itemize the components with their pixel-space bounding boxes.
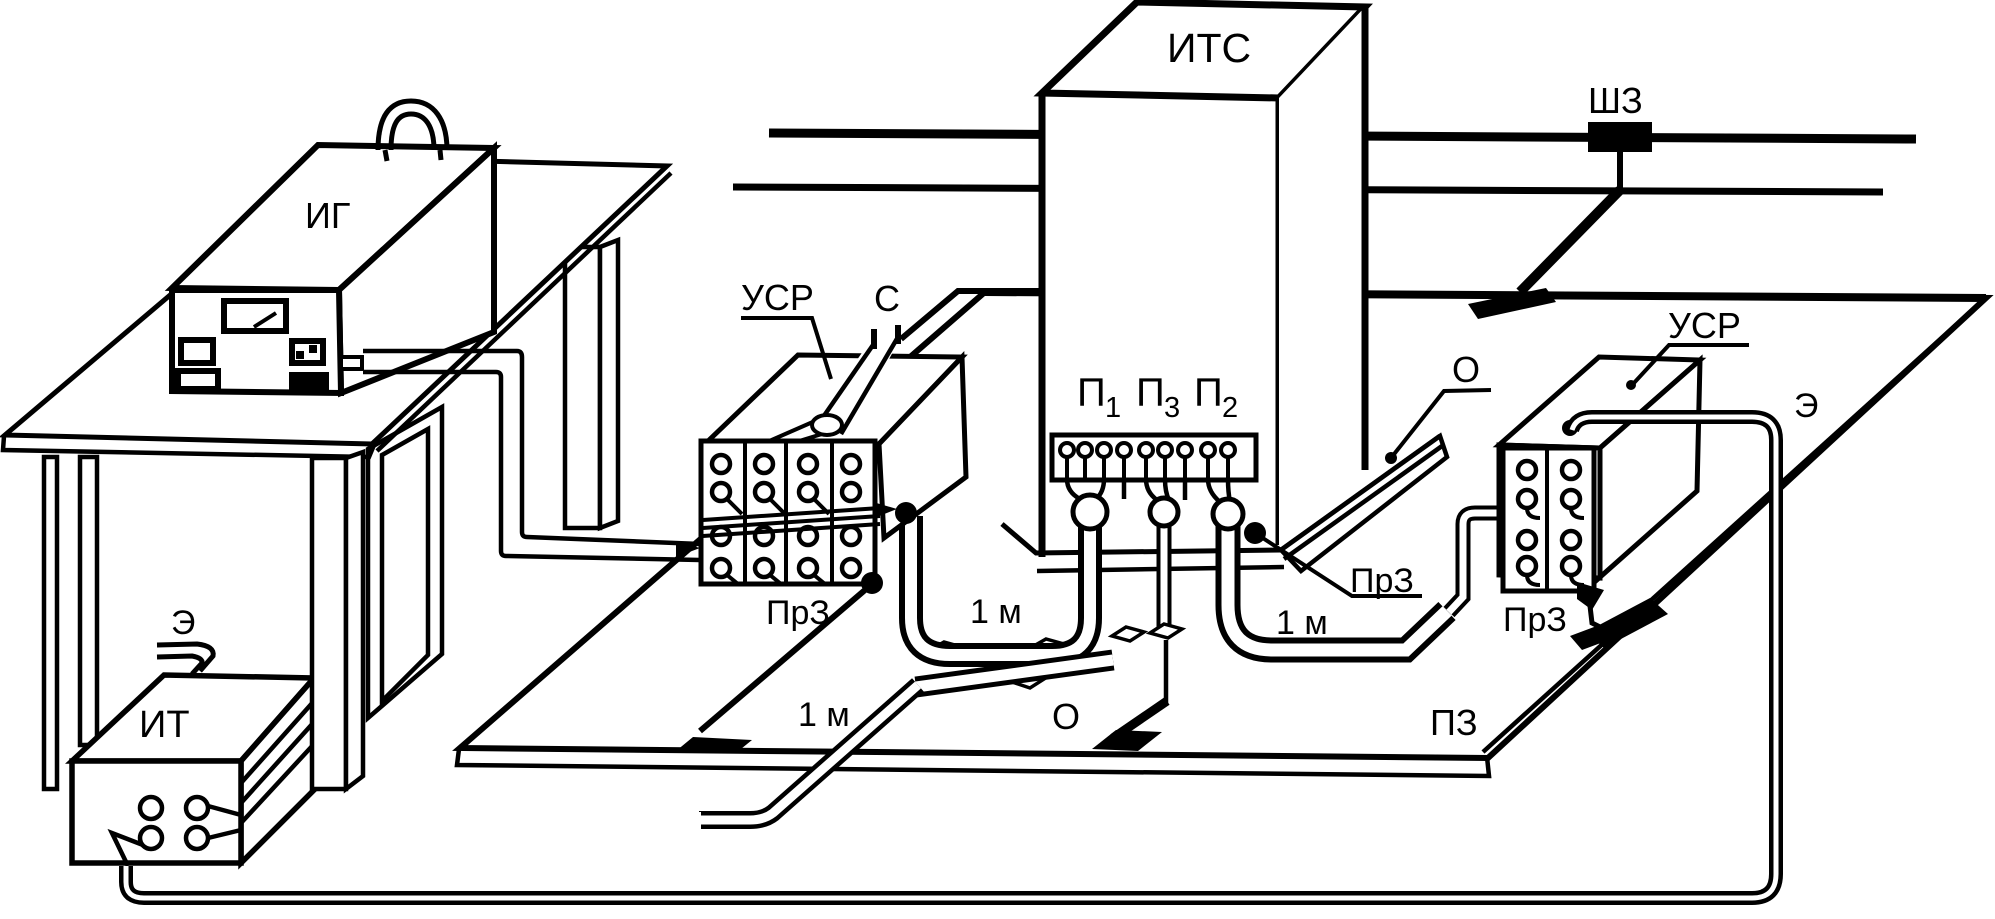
bundle arrow wedge before junction bbox=[873, 502, 897, 518]
svg-text:О: О bbox=[1052, 696, 1080, 737]
node O leader line bbox=[1391, 390, 1491, 458]
wire ШЗ drop from bus 1 to bus 2 bbox=[1617, 140, 1623, 191]
ИГ meter needle bbox=[254, 313, 276, 327]
wire diagonal strap from panel corner to plane pad bbox=[700, 584, 872, 731]
ground pad of ШЗ strap on plane top edge bbox=[1468, 288, 1556, 319]
capacitor С plates bbox=[871, 329, 877, 349]
svg-text:ПрЗ: ПрЗ bbox=[1350, 562, 1414, 600]
wire ribbon from О strap down-left off plane edge bbox=[699, 685, 918, 820]
Э cable junction dot on right УСР box bbox=[1562, 420, 1578, 436]
junction dot (to П1 ribbon) bbox=[895, 502, 917, 524]
svg-text:ПрЗ: ПрЗ bbox=[766, 594, 830, 632]
svg-text:1 м: 1 м bbox=[798, 696, 850, 734]
wire thick diagonal from bus junction down to plane pad bbox=[1520, 190, 1620, 292]
table top bbox=[5, 157, 667, 444]
wire zigzag from ИТ lower-left terminal bbox=[112, 833, 143, 866]
ИГ button 1 bbox=[181, 340, 213, 363]
svg-text:2: 2 bbox=[1222, 392, 1238, 424]
svg-text:1 м: 1 м bbox=[1276, 604, 1328, 642]
ИГ button 4 (dark) bbox=[289, 372, 329, 390]
cable loop on ИГ top bbox=[378, 101, 447, 150]
ground pad on plane front edge (П3 branch) bbox=[1092, 730, 1162, 751]
wire converging leads strip to balls bbox=[1067, 479, 1230, 502]
svg-text:1 м: 1 м bbox=[970, 593, 1022, 631]
svg-text:О: О bbox=[1452, 349, 1480, 390]
capacitor С oval pad bbox=[812, 415, 842, 435]
capacitor С strip on box top bbox=[758, 421, 815, 446]
wire thin link from О ribbon end down to plane pad (П3 branch) bbox=[1164, 640, 1169, 703]
svg-text:УСР: УСР bbox=[741, 277, 814, 318]
clamp foot on О ribbon (upper left) bbox=[930, 642, 962, 656]
ИТ instrument front face bbox=[72, 761, 241, 863]
svg-text:1: 1 bbox=[1105, 392, 1121, 424]
УСР box (left) top face bbox=[707, 355, 962, 444]
УСР box (right) front face bbox=[1499, 445, 1600, 578]
ball contact П2 bbox=[1213, 499, 1243, 529]
svg-text:П: П bbox=[1136, 371, 1165, 415]
ИТС cabinet front face bbox=[1042, 93, 1279, 560]
wire jumper hooks on panel bbox=[727, 499, 829, 584]
svg-text:П: П bbox=[1077, 371, 1106, 415]
svg-text:П: П bbox=[1194, 371, 1223, 415]
П3 thin ribbon from ball 2 down bbox=[1157, 515, 1172, 630]
junction dot (panel corner, to ground pad) bbox=[861, 572, 883, 594]
ИТ instrument top face bbox=[72, 675, 314, 761]
svg-text:Э: Э bbox=[171, 604, 195, 642]
ИГ output connector bbox=[341, 357, 362, 369]
ИГ button 3 bbox=[292, 341, 323, 363]
table back-left leg bbox=[80, 457, 97, 745]
table top thickness bbox=[3, 436, 374, 457]
ball contact П1 bbox=[1073, 495, 1107, 529]
clamp foot under П3 strap (left) bbox=[1112, 627, 1144, 641]
ИГ instrument front face bbox=[172, 290, 341, 393]
svg-text:ПрЗ: ПрЗ bbox=[1503, 601, 1567, 639]
pedestal slab front thickness line bbox=[1037, 567, 1284, 571]
ИТ terminals bbox=[140, 797, 162, 819]
table far-right leg bbox=[565, 247, 600, 528]
svg-text:УСР: УСР bbox=[1668, 305, 1741, 346]
pedestal slab under ИТС (top outline) bbox=[1002, 436, 1440, 553]
terminal circles with stems on strip bbox=[1060, 443, 1235, 479]
О bonding ribbon on plane (center) bbox=[916, 660, 1113, 687]
clamp foot on О ribbon (upper right) bbox=[1032, 639, 1064, 653]
panel terminal circles (right) bbox=[1518, 461, 1580, 575]
ground plane right edge thickness bbox=[1483, 306, 1977, 752]
ИТС cabinet right face bbox=[1279, 7, 1365, 550]
wire from wedge to ground pad bbox=[1590, 606, 1604, 629]
УСР box (right) top face bbox=[1499, 357, 1700, 448]
svg-text:Э: Э bbox=[1794, 387, 1818, 425]
junction dot near П2 ball bbox=[1244, 522, 1266, 544]
ground plane front edge thickness bbox=[457, 749, 1489, 776]
Э electrode hook symbol bbox=[157, 644, 213, 671]
ball contact П3 bbox=[1150, 498, 1178, 526]
clamp foot on О ribbon (lower left) bbox=[917, 677, 949, 691]
svg-text:ИТ: ИТ bbox=[139, 704, 190, 746]
capacitor С strip channel (white) bbox=[813, 333, 903, 440]
clamp foot under П3 strap (right) bbox=[1150, 624, 1182, 638]
УСР box (right) right face bbox=[1599, 360, 1700, 578]
svg-text:ШЗ: ШЗ bbox=[1588, 80, 1643, 121]
ИГ instrument right face bbox=[339, 148, 494, 393]
ИТ right face ridges bbox=[241, 701, 314, 783]
cable arrow wedge at УСР panel bbox=[676, 541, 700, 557]
wire from ИТ terminals to right bbox=[208, 806, 241, 815]
wire bus line 2 (lower horizontal bus) bbox=[733, 187, 1883, 192]
cable Э: across plane, down right side, along bottom to ИТ bbox=[126, 417, 1776, 898]
ground plane top edge (thick) bbox=[985, 292, 1986, 298]
node ШЗ black block on bus 1 bbox=[1588, 122, 1652, 152]
wire thin strap from П2 ribbon up to right УСР panel bbox=[1449, 513, 1500, 612]
ИГ instrument top face bbox=[172, 145, 494, 290]
table front-left leg bbox=[44, 457, 57, 789]
wire bundle across panel to junction bbox=[703, 508, 880, 520]
УСР terminal panel (right) bbox=[1503, 448, 1594, 591]
table front-right leg bbox=[312, 458, 346, 789]
svg-text:ПЗ: ПЗ bbox=[1430, 702, 1478, 743]
panel dividers bbox=[743, 441, 747, 584]
svg-text:С: С bbox=[874, 278, 900, 319]
ИГ button 2 bbox=[178, 371, 218, 389]
table side frame inner bbox=[382, 429, 428, 701]
ground pad on plane front edge (left, УСР branch) bbox=[676, 737, 752, 753]
node O leader dot on slab bbox=[1385, 452, 1397, 464]
ground pad on plane right edge (ПрЗ right) bbox=[1586, 598, 1668, 648]
pedestal slab right bar thickness lines bbox=[1281, 436, 1447, 571]
panel terminal circles bbox=[712, 455, 860, 577]
УСР box (left) right face bbox=[879, 357, 966, 538]
УСР terminal panel (left) bbox=[701, 441, 875, 584]
П1 ribbon: dot junction down, right, up to ball 1 bbox=[911, 516, 1090, 655]
junction wedge at right panel corner bbox=[1577, 582, 1604, 610]
wire bus line 1 (upper horizontal bus) bbox=[769, 133, 1916, 139]
ИТ instrument right face bbox=[241, 678, 315, 863]
ИТС cabinet top face bbox=[1042, 2, 1365, 98]
П2 ribbon: ball 3 down and right along plane bbox=[1228, 515, 1447, 650]
svg-text:ИГ: ИГ bbox=[305, 195, 350, 236]
table side frame outer bbox=[368, 407, 442, 718]
svg-text:ИТС: ИТС bbox=[1167, 25, 1251, 71]
wire jumper hooks (right panel) bbox=[1527, 508, 1584, 585]
ПрЗ leader (center) bbox=[1255, 533, 1422, 596]
wire from С to ИТС bbox=[901, 291, 1040, 339]
ИТС terminal strip bbox=[1052, 435, 1256, 480]
clamp foot on О ribbon (lower right) bbox=[1012, 674, 1044, 688]
ИГ meter window bbox=[224, 301, 286, 331]
cable ИГ to УСР panel bbox=[363, 351, 700, 544]
svg-text:3: 3 bbox=[1164, 392, 1180, 424]
ground plane ПЗ (big plate) bbox=[460, 292, 1986, 758]
